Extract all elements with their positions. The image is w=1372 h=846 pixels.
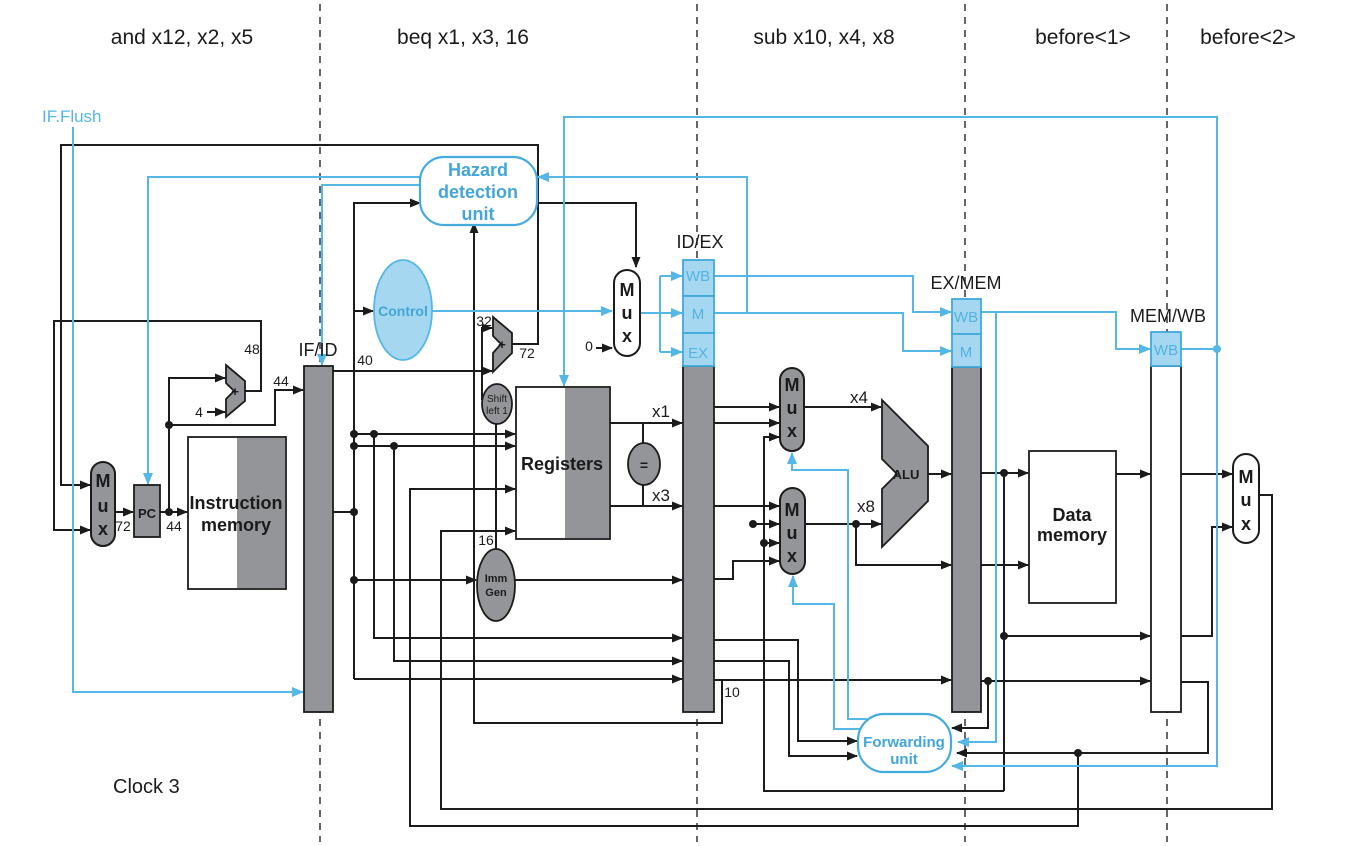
svg-text:u: u bbox=[787, 523, 798, 543]
svg-text:u: u bbox=[1241, 490, 1252, 510]
svg-text:memory: memory bbox=[1037, 525, 1107, 545]
svg-text:EX/MEM: EX/MEM bbox=[930, 273, 1001, 293]
svg-text:x: x bbox=[787, 421, 797, 441]
svg-text:x3: x3 bbox=[652, 486, 670, 505]
svg-text:MEM/WB: MEM/WB bbox=[1130, 306, 1206, 326]
svg-text:x: x bbox=[1241, 514, 1251, 534]
svg-text:M: M bbox=[692, 306, 705, 323]
svg-text:Clock 3: Clock 3 bbox=[113, 776, 180, 798]
svg-text:+: + bbox=[498, 337, 506, 352]
svg-text:Forwarding: Forwarding bbox=[863, 734, 945, 751]
svg-text:u: u bbox=[98, 496, 109, 516]
svg-text:40: 40 bbox=[357, 352, 373, 368]
svg-text:16: 16 bbox=[478, 532, 494, 548]
svg-text:Imm: Imm bbox=[485, 573, 508, 585]
svg-text:Data: Data bbox=[1052, 505, 1092, 525]
svg-text:x: x bbox=[622, 326, 632, 346]
svg-text:x: x bbox=[787, 546, 797, 566]
svg-text:+: + bbox=[231, 384, 239, 399]
svg-text:32: 32 bbox=[476, 313, 492, 329]
svg-text:Instruction: Instruction bbox=[190, 493, 283, 513]
svg-text:Control: Control bbox=[378, 303, 428, 319]
svg-text:44: 44 bbox=[273, 373, 289, 389]
svg-text:WB: WB bbox=[954, 309, 978, 326]
svg-text:u: u bbox=[622, 303, 633, 323]
svg-text:72: 72 bbox=[519, 345, 535, 361]
svg-text:memory: memory bbox=[201, 515, 271, 535]
svg-text:=: = bbox=[640, 457, 648, 473]
svg-text:ALU: ALU bbox=[893, 467, 920, 482]
svg-text:M: M bbox=[620, 280, 635, 300]
svg-text:x4: x4 bbox=[850, 388, 868, 407]
svg-text:EX: EX bbox=[688, 345, 708, 362]
svg-text:WB: WB bbox=[1154, 342, 1178, 359]
svg-text:and x12, x2, x5: and x12, x2, x5 bbox=[111, 26, 253, 49]
svg-text:4: 4 bbox=[195, 404, 203, 420]
svg-text:unit: unit bbox=[890, 751, 918, 768]
svg-text:Shift: Shift bbox=[487, 394, 507, 405]
svg-text:before<1>: before<1> bbox=[1035, 26, 1131, 49]
svg-text:detection: detection bbox=[438, 182, 518, 202]
svg-text:M: M bbox=[96, 471, 111, 491]
svg-text:72: 72 bbox=[115, 518, 131, 534]
svg-text:IF/ID: IF/ID bbox=[299, 340, 338, 360]
svg-text:10: 10 bbox=[724, 684, 740, 700]
svg-text:unit: unit bbox=[462, 204, 495, 224]
svg-text:IF.Flush: IF.Flush bbox=[42, 107, 102, 126]
svg-text:u: u bbox=[787, 398, 798, 418]
svg-text:x8: x8 bbox=[857, 497, 875, 516]
svg-text:ID/EX: ID/EX bbox=[676, 232, 723, 252]
svg-text:M: M bbox=[1239, 467, 1254, 487]
svg-text:left 1: left 1 bbox=[486, 406, 508, 417]
svg-text:Gen: Gen bbox=[485, 587, 507, 599]
svg-text:M: M bbox=[785, 500, 800, 520]
svg-text:Hazard: Hazard bbox=[448, 160, 508, 180]
svg-text:x: x bbox=[98, 519, 108, 539]
svg-text:M: M bbox=[785, 375, 800, 395]
svg-text:WB: WB bbox=[686, 268, 710, 285]
svg-text:M: M bbox=[960, 344, 973, 361]
svg-text:48: 48 bbox=[244, 341, 260, 357]
svg-text:44: 44 bbox=[166, 518, 182, 534]
svg-text:beq x1, x3, 16: beq x1, x3, 16 bbox=[397, 26, 529, 49]
svg-text:Registers: Registers bbox=[521, 454, 603, 474]
svg-text:sub x10, x4, x8: sub x10, x4, x8 bbox=[753, 26, 894, 49]
svg-text:x1: x1 bbox=[652, 402, 670, 421]
svg-text:PC: PC bbox=[138, 506, 157, 521]
svg-text:before<2>: before<2> bbox=[1200, 26, 1296, 49]
svg-text:0: 0 bbox=[585, 338, 593, 354]
